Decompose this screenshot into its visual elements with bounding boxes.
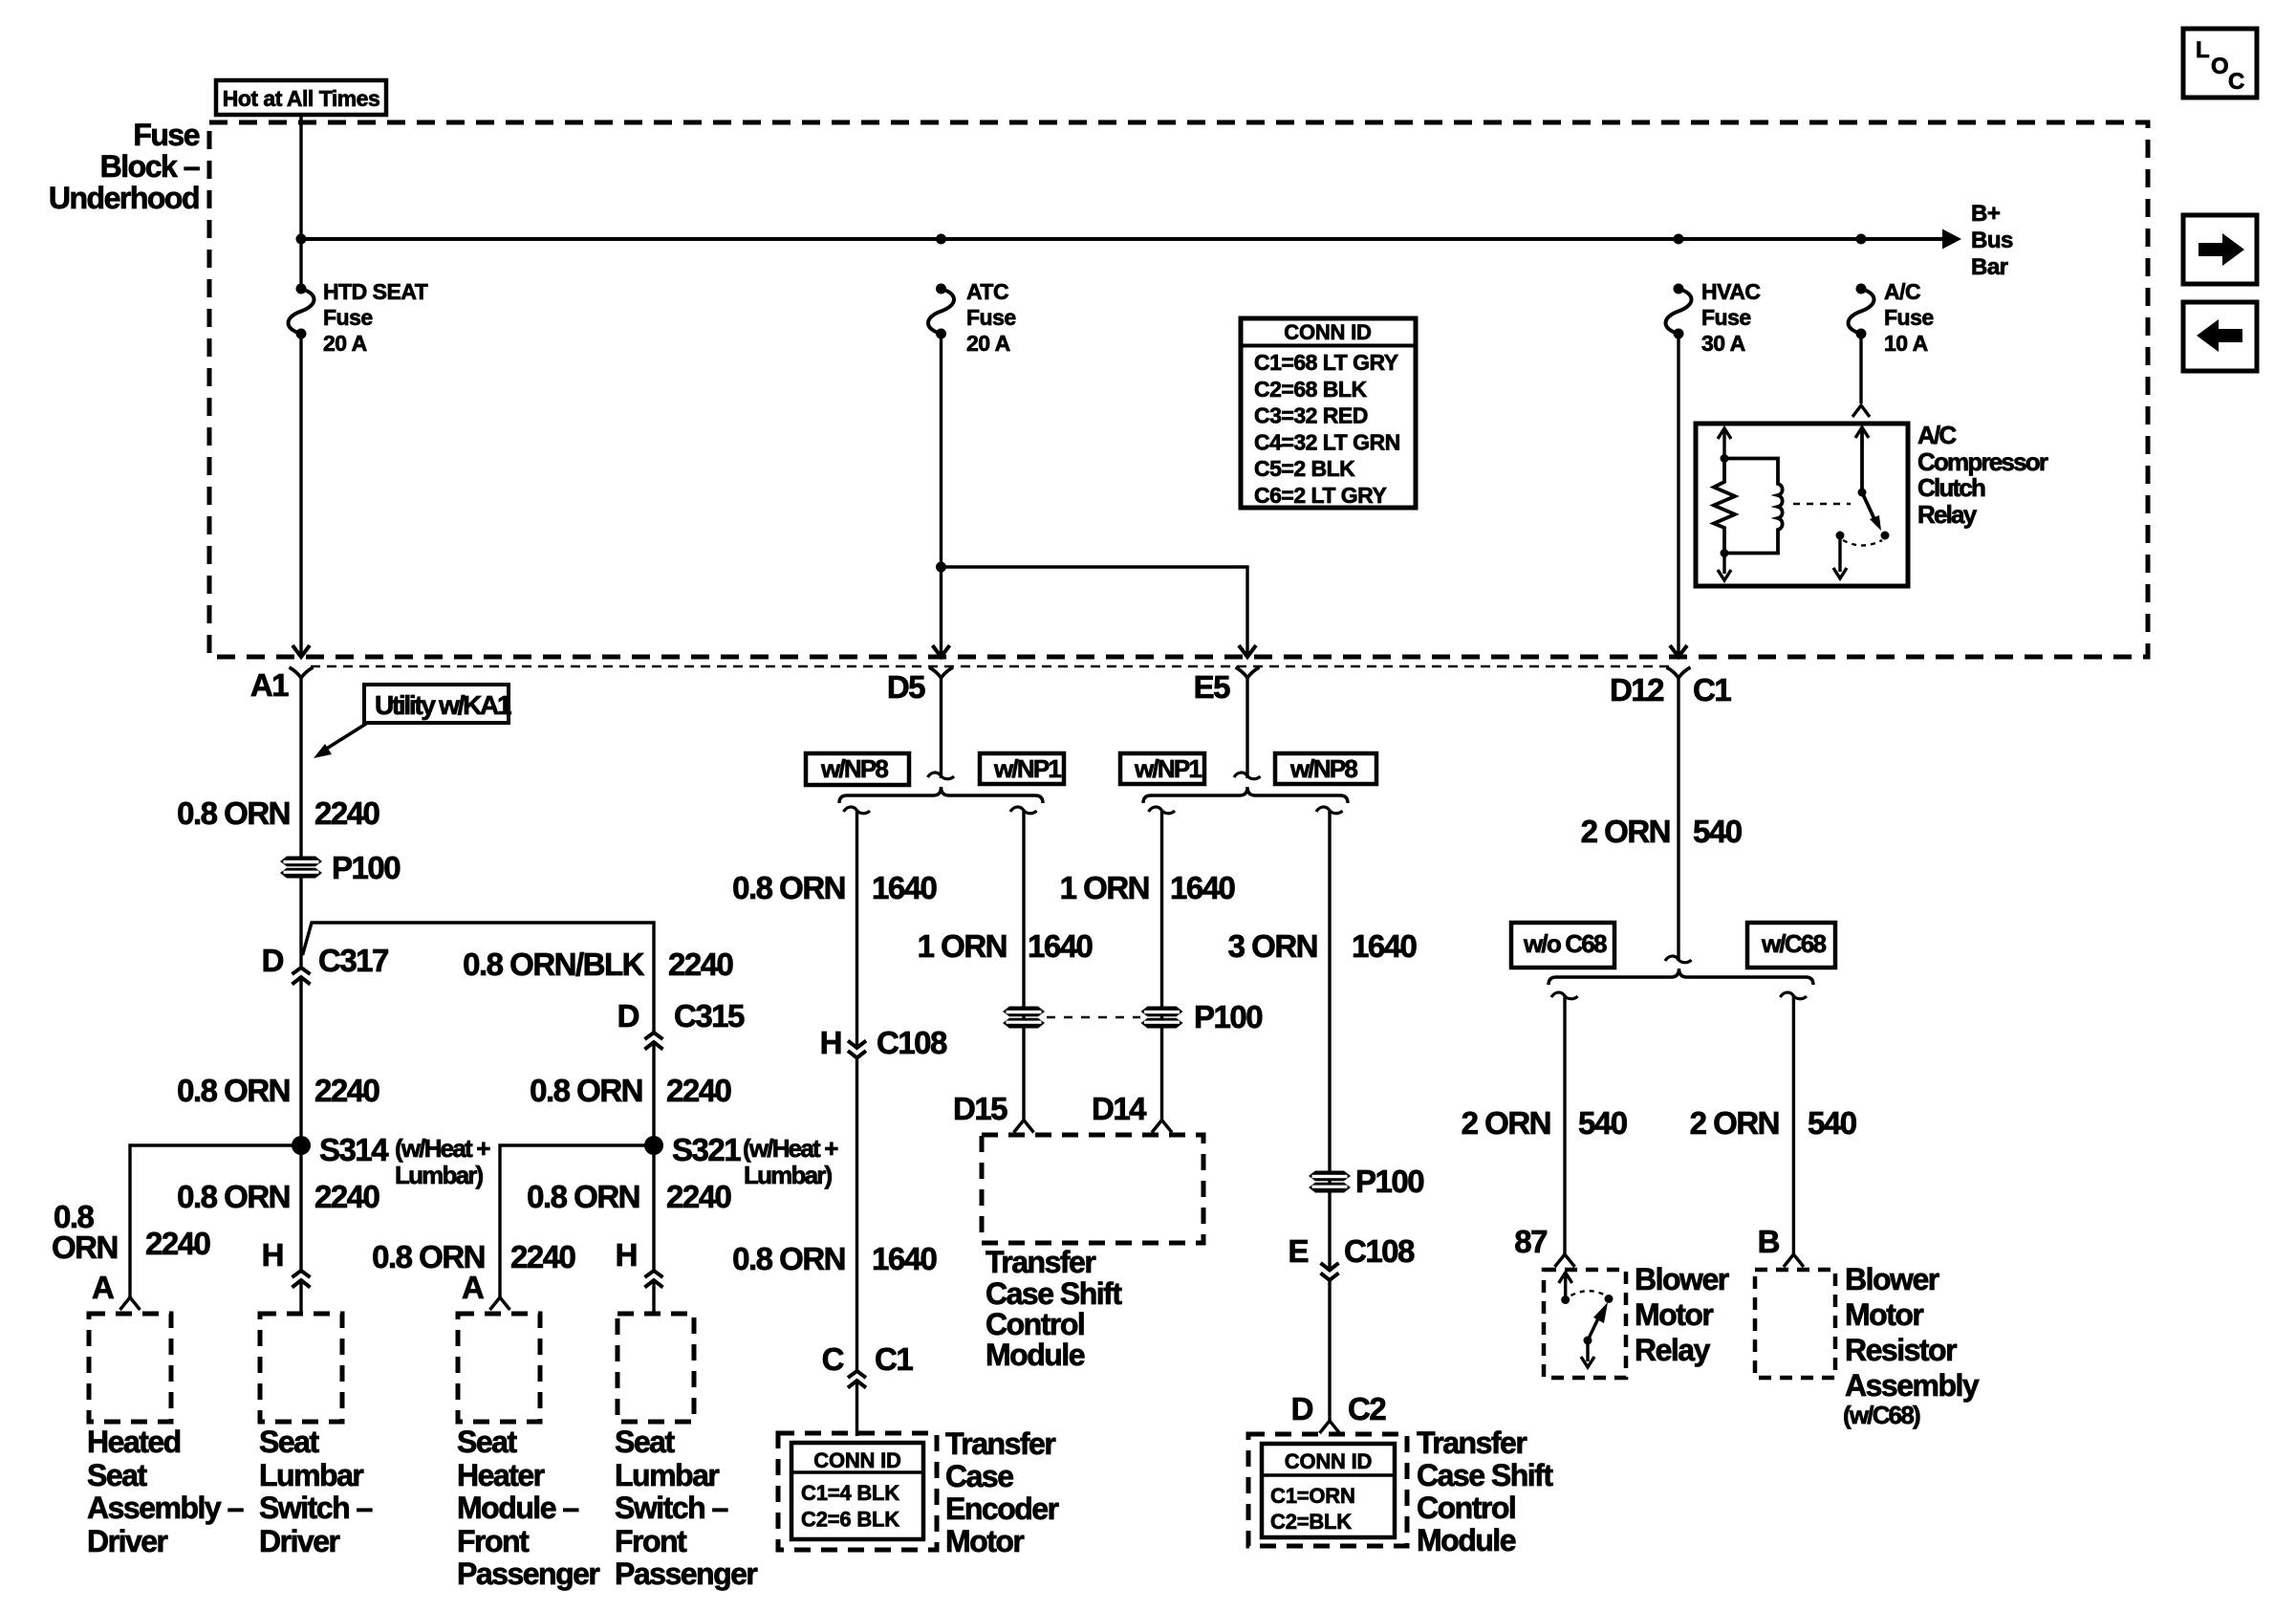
svg-text:Module: Module [986,1338,1085,1372]
svg-text:Blower: Blower [1635,1262,1729,1296]
label: 0.8 ORN / 2240 (A1 to P100) [177,795,290,831]
svg-text:2 ORN: 2 ORN [1581,814,1670,849]
svg-text:D: D [262,943,284,978]
svg-text:C317: C317 [318,943,388,978]
connector on driver lumbar wire [292,1271,311,1288]
svg-text:CONN ID: CONN ID [813,1448,901,1472]
svg-text:2240: 2240 [510,1239,575,1274]
svg-text:H: H [820,1025,841,1060]
label: Transfer Case Shift Control Module (mid) [986,1245,1095,1279]
wire: connector to switch (passenger) [652,1280,655,1314]
branch: S314 to heated seat assembly [130,1145,301,1297]
relay pin arrow (coil +) [1718,428,1731,458]
svg-text:Switch –: Switch – [259,1491,373,1525]
svg-text:P100: P100 [1194,999,1262,1034]
svg-text:Lumbar): Lumbar) [744,1161,833,1189]
label: ATC Fuse 20 A [966,279,1008,304]
svg-text:20 A: 20 A [323,331,367,356]
splice S321 [644,1136,663,1155]
svg-text:Lumbar): Lumbar) [395,1161,484,1189]
label: 0.8 ORN / 2240 (to S314) [177,1073,290,1108]
svg-text:ORN: ORN [52,1230,118,1265]
svg-text:Assembly: Assembly [1845,1368,1980,1403]
forward page arrow box [2183,215,2257,284]
label: S321 (w/Heat + Lumbar) [672,1132,741,1167]
svg-text:1640: 1640 [872,870,937,905]
svg-text:Case Shift: Case Shift [1417,1458,1553,1492]
splice grommet P100 right [1309,1171,1351,1193]
svg-text:Transfer: Transfer [1417,1426,1527,1460]
svg-text:1640: 1640 [1028,928,1093,964]
svg-text:C315: C315 [674,998,745,1034]
relay contact dot (NO) [1881,532,1890,540]
svg-text:540: 540 [1808,1105,1856,1141]
squiggle at E5 split [1234,773,1261,779]
branch: S321 to seat heater module [500,1145,654,1297]
svg-text:540: 540 [1578,1105,1627,1141]
label: Fuse Block - Underhood [133,118,199,152]
label: B+ Bus Bar [1971,201,2001,227]
wire: Hot at All Times feed [299,115,302,289]
backward page arrow box [2183,302,2257,371]
wire: D5 to option split [940,678,942,778]
relay linkage (dashed) [1793,503,1851,505]
wire: C315 to S321 [652,1042,655,1145]
svg-text:Clutch: Clutch [1917,473,1985,502]
branch wire w/NP1 (1 ORN 1640, D5) [1010,807,1037,814]
junction: bus at HTD SEAT feed [296,234,307,245]
svg-text:C1=4 BLK: C1=4 BLK [801,1481,899,1505]
label: 2 ORN / 540 (w/o C68) [1462,1105,1550,1141]
svg-text:Module –: Module – [457,1491,578,1525]
label: H / C108 [820,1025,841,1060]
svg-text:P100: P100 [332,850,400,885]
component: Seat Lumbar Switch - Front Passenger [617,1314,694,1422]
fuse ATC 20 A [928,284,954,339]
CONN ID table: underhood fuse block [1241,318,1416,508]
svg-text:Fuse: Fuse [966,305,1016,330]
svg-text:10 A: 10 A [1884,331,1928,356]
connector pin A (heated seat) [120,1297,141,1310]
svg-text:C1=68 LT GRY: C1=68 LT GRY [1254,350,1398,375]
connector pin E5 [1236,667,1260,678]
svg-text:A1: A1 [250,667,289,703]
svg-text:C: C [822,1341,844,1377]
label: A1 [250,667,289,703]
svg-text:Relay: Relay [1917,500,1978,529]
svg-text:Heated: Heated [87,1425,181,1459]
wire: C317 to S314 [299,977,302,1145]
relay throw dashed arc [1843,540,1882,546]
wire: E5 to option split [1245,678,1248,778]
svg-text:B+: B+ [1971,201,2001,227]
label: 0.8 ORN / 2240 (to S321) [530,1073,642,1108]
label: 0.8 ORN / 1640 (upper) [732,870,845,905]
label: 0.8 ORN / 2240 (below S314) [177,1179,290,1214]
label: 0.8 ORN / 1640 (lower) [732,1241,845,1276]
svg-text:C2=BLK: C2=BLK [1270,1510,1352,1534]
svg-text:C108: C108 [877,1025,947,1060]
svg-text:C2=68 BLK: C2=68 BLK [1254,377,1367,402]
label: E / C108 [1288,1233,1308,1269]
label: Transfer Case Shift Control Module (bottom) [1417,1426,1527,1460]
option split brace C68 [1549,969,1813,985]
svg-text:B: B [1758,1224,1780,1259]
svg-text:2240: 2240 [668,947,733,982]
option label box w/o C68 [1511,923,1614,968]
label: 0.8 ORN 2240 stacked (heated seat wire) [54,1199,95,1234]
arrow at fuse block exit E5 [1239,645,1256,657]
svg-text:CONN ID: CONN ID [1285,1449,1373,1473]
connector pin D5 [929,667,953,678]
wire: HVAC fuse to D12 [1677,334,1679,657]
svg-text:Seat: Seat [87,1458,147,1492]
wire: D12 to option split [1677,678,1679,961]
svg-text:0.8 ORN: 0.8 ORN [732,1241,845,1276]
connector C108 pin H [848,1041,866,1058]
component: Blower Motor Resistor Assembly [1755,1270,1835,1378]
relay blade with arrow [1588,1302,1608,1340]
squiggle at D5 split [928,773,955,779]
component: Seat Lumbar Switch - Driver [260,1314,342,1422]
svg-text:Heater: Heater [457,1458,545,1492]
svg-text:O: O [2211,54,2228,79]
B+ bus bar [301,229,1961,250]
svg-text:Control: Control [986,1307,1084,1341]
junction: ATC branch to E5 [936,562,946,573]
wire: ATC fuse to D5 [940,334,942,657]
callout: Hot at All Times [216,80,386,115]
label: D12 / C1 [1610,672,1664,708]
svg-text:w/NP1: w/NP1 [1134,754,1202,783]
svg-text:2240: 2240 [314,1073,379,1108]
svg-text:Assembly –: Assembly – [87,1491,244,1525]
branch wire to C315 [303,923,655,1033]
svg-text:0.8 ORN: 0.8 ORN [530,1073,642,1108]
relay node B dot [1721,549,1729,557]
svg-text:C108: C108 [1344,1233,1415,1269]
label: 2 ORN / 540 (w/C68) [1690,1105,1779,1141]
label: D15 [953,1091,1007,1126]
svg-text:0.8 ORN: 0.8 ORN [177,1179,290,1214]
connector C108 pin E [1321,1263,1339,1280]
svg-text:C2=6 BLK: C2=6 BLK [801,1508,899,1532]
connector pin A1 [290,667,314,678]
svg-text:Bar: Bar [1971,254,2008,280]
svg-text:H: H [616,1237,637,1273]
svg-text:0.8 ORN: 0.8 ORN [177,1073,290,1108]
svg-text:H: H [262,1237,283,1273]
label: A/C Compressor Clutch Relay [1917,421,1957,449]
svg-text:1640: 1640 [1170,870,1235,905]
relay output pin arrow [1833,535,1847,578]
svg-text:Motor: Motor [945,1524,1024,1558]
wire: A1 to P100 [299,678,302,857]
connector C317 (pin D) [292,968,311,985]
svg-text:C6=2 LT GRY: C6=2 LT GRY [1254,483,1386,508]
branch wire w/NP1 (1 ORN 1640, E5) [1149,807,1176,814]
label: 3 ORN / 1640 [1228,928,1317,964]
component: Transfer Case Shift Control Module (pins D15/D14) [982,1135,1203,1243]
squiggle at C68 split [1665,956,1692,963]
svg-text:C1: C1 [875,1341,913,1377]
svg-text:1640: 1640 [872,1241,937,1276]
svg-text:Lumbar: Lumbar [259,1458,363,1492]
svg-text:Case: Case [945,1459,1013,1493]
svg-text:Lumbar: Lumbar [615,1458,719,1492]
svg-text:Blower: Blower [1845,1262,1939,1296]
arrow at fuse block exit A1 [292,645,310,657]
option label box w/NP8 left [806,753,909,785]
svg-text:Front: Front [615,1524,687,1558]
svg-text:w/o C68: w/o C68 [1523,929,1607,958]
label: HVAC Fuse 30 A [1701,279,1760,304]
svg-text:Transfer: Transfer [986,1245,1095,1279]
svg-text:Motor: Motor [1845,1297,1923,1332]
svg-text:3 ORN: 3 ORN [1228,928,1317,964]
relay contact dot 87 [1561,1295,1570,1304]
svg-text:87: 87 [1514,1224,1547,1259]
label: pin A (seat heater module) [462,1270,484,1305]
svg-text:2 ORN: 2 ORN [1690,1105,1779,1141]
svg-text:Seat: Seat [615,1425,675,1459]
svg-text:Block –: Block – [100,149,200,184]
label: Blower Motor Resistor Assembly (w/C68) [1845,1262,1939,1296]
CONN ID table: transfer case encoder motor [791,1443,923,1539]
label: Blower Motor Relay [1635,1262,1729,1296]
option label box w/NP1 right [1120,753,1204,784]
option split brace E5 [1143,787,1348,803]
connector pin B [1784,1254,1804,1267]
label: D / C2 [1291,1391,1313,1426]
svg-text:D: D [1291,1391,1313,1426]
relay contact dot 87a [1605,1295,1614,1303]
fuse HTD SEAT 20 A [289,284,314,339]
connector C1 pin C [848,1371,866,1388]
option label box w/C68 [1747,923,1835,968]
svg-text:2240: 2240 [666,1179,731,1214]
label: HTD SEAT Fuse 20 A [323,279,428,304]
svg-text:C3=32 RED: C3=32 RED [1254,403,1368,428]
svg-text:Hot at All Times: Hot at All Times [223,86,380,111]
label: A/C Fuse 10 A [1884,279,1920,304]
component: Seat Heater Module - Front Passenger [458,1314,540,1422]
option label box w/NP1 left [980,753,1064,784]
svg-text:Bus: Bus [1971,228,2013,253]
label: pin H (driver lumbar) [262,1237,283,1273]
relay throw dashed arc [1571,1291,1605,1295]
svg-text:2 ORN: 2 ORN [1462,1105,1550,1141]
svg-text:Fuse: Fuse [1701,305,1751,330]
svg-text:Transfer: Transfer [945,1426,1055,1461]
wire: C108 to C1 [856,1058,858,1372]
component: Transfer Case Shift Control Module (CONN ID) [1248,1434,1407,1546]
arrow at fuse block exit D12 [1670,645,1687,657]
label: E5 [1194,669,1231,705]
svg-text:E: E [1288,1233,1308,1269]
branch wire w/NP8 (0.8 ORN 1640) [844,807,871,814]
connector: relay input [1852,405,1870,417]
svg-text:C1: C1 [1693,672,1731,708]
svg-text:Relay: Relay [1635,1333,1711,1367]
connector C315 (pin D) [645,1033,663,1050]
branch wire w/NP8 (3 ORN 1640, E5) [1316,807,1343,814]
resistor (relay suppression) [1714,459,1735,554]
label: 0.8 ORN / 2240 (seat heater module wire) [372,1239,485,1274]
svg-text:D15: D15 [953,1091,1007,1126]
connector pin D12 / C1 [1667,667,1691,678]
svg-text:Underhood: Underhood [49,181,199,215]
svg-text:2240: 2240 [666,1073,731,1108]
fuse block connector boundary (thin dashed) [311,665,1669,668]
component: Blower Motor Relay [1544,1270,1626,1378]
svg-text:2240: 2240 [145,1226,210,1261]
svg-text:A/C: A/C [1884,279,1920,304]
label: Heated Seat Assembly - Driver [87,1425,181,1459]
branch wire: ATC to E5 [942,567,1248,657]
wire: S321 to seat lumbar switch passenger [652,1145,655,1271]
connector C2 pin D [1320,1421,1340,1433]
svg-text:540: 540 [1693,814,1742,849]
connector on passenger lumbar wire [645,1271,663,1288]
wire: S314 to seat lumbar switch driver [299,1145,302,1271]
svg-text:C: C [2228,69,2244,95]
relay U1: A/C Compressor Clutch Relay box [1696,424,1908,586]
label: P100 [332,850,400,885]
arrow at fuse block exit D5 [933,645,950,657]
wire: HTD SEAT fuse to A1 [299,334,302,657]
connector pin A (seat heater module) [490,1297,510,1310]
label: 1 ORN / 1640 (E5 left) [1060,870,1149,905]
label: Seat Lumbar Switch - Driver [259,1425,319,1459]
wire: C108 to C2 [1328,1281,1331,1422]
svg-text:Seat: Seat [457,1425,517,1459]
svg-text:Motor: Motor [1635,1297,1713,1332]
svg-text:S314: S314 [319,1132,389,1167]
svg-text:Fuse: Fuse [133,118,199,152]
svg-text:Passenger: Passenger [457,1557,599,1591]
label: 0.8 ORN / 2240 (below S321) [527,1179,639,1214]
label: D / C315 [617,998,639,1034]
label: pin H (passenger lumbar) [616,1237,637,1273]
svg-text:D5: D5 [887,669,925,705]
svg-text:E5: E5 [1194,669,1231,705]
label: S314 (w/Heat + Lumbar) [319,1132,389,1167]
splice link P100 dashed [1047,1016,1140,1018]
svg-text:C4=32 LT GRN: C4=32 LT GRN [1254,429,1400,454]
label: D5 [887,669,925,705]
fuse A/C 10 A [1849,284,1874,339]
connector pin D15 [1014,1121,1034,1133]
wire: P100 to C317 [299,878,302,968]
svg-text:0.8 ORN: 0.8 ORN [527,1179,639,1214]
svg-text:D14: D14 [1092,1091,1147,1126]
svg-text:Seat: Seat [259,1425,319,1459]
splice S314 [292,1136,311,1155]
svg-text:Module: Module [1417,1523,1516,1557]
svg-text:20 A: 20 A [966,331,1010,356]
svg-text:Resistor: Resistor [1845,1333,1957,1367]
relay pin 87 arrow [1559,1273,1572,1300]
label: D / C317 [262,943,284,978]
svg-text:0.8 ORN/BLK: 0.8 ORN/BLK [463,947,645,982]
label: Seat Lumbar Switch - Front Passenger [615,1425,675,1459]
relay common pin arrow [1581,1340,1594,1367]
junction: bus at HVAC fuse [1674,234,1684,245]
junction: bus at ATC fuse [936,234,946,245]
component: Transfer Case Encoder Motor (CONN ID) [778,1433,937,1550]
relay switch common dot [1858,489,1867,497]
svg-text:Switch –: Switch – [615,1491,728,1525]
wire: A/C fuse to relay [1859,334,1862,403]
relay common dot [1584,1337,1592,1345]
svg-text:D: D [617,998,639,1034]
junction: bus at A/C fuse [1856,234,1867,245]
svg-text:Fuse: Fuse [323,305,373,330]
relay node A dot [1721,454,1729,463]
svg-text:Encoder: Encoder [945,1491,1059,1526]
option split brace D5 [839,787,1043,803]
svg-text:C1=ORN: C1=ORN [1270,1484,1355,1508]
svg-text:1 ORN: 1 ORN [918,928,1007,964]
svg-text:w/NP1: w/NP1 [993,754,1061,783]
svg-text:Passenger: Passenger [615,1557,757,1591]
svg-text:A: A [462,1270,484,1305]
svg-text:P100: P100 [1355,1164,1423,1199]
splice grommet P100 mid-left [1003,1007,1045,1029]
connector pin D14 [1152,1121,1172,1133]
svg-text:Driver: Driver [259,1524,340,1558]
connector pin 87 [1555,1254,1575,1267]
svg-text:0.8 ORN: 0.8 ORN [732,870,845,905]
svg-text:(w/Heat +: (w/Heat + [395,1134,490,1163]
relay contact dot (NC) [1836,532,1845,540]
fuse block underhood dashed boundary [209,122,2148,657]
CONN ID table: transfer case shift control module [1262,1444,1395,1537]
branch wire w/C68 (2 ORN 540) [1780,992,1807,999]
svg-text:0.8 ORN: 0.8 ORN [177,795,290,831]
branch wire w/o C68 (2 ORN 540) [1551,992,1578,999]
callout: Utility w/KA1 [314,685,511,758]
splice grommet P100 mid-right [1141,1007,1183,1029]
splice grommet P100 driver [280,857,322,879]
svg-text:1640: 1640 [1352,928,1417,964]
label: 1 ORN / 1640 (D5 right) [918,928,1007,964]
svg-text:Front: Front [457,1524,530,1558]
label: Seat Heater Module - Front Passenger [457,1425,517,1459]
svg-text:C2: C2 [1348,1391,1386,1426]
svg-text:Utility w/KA1: Utility w/KA1 [375,690,511,720]
label: pin A (heated seat) [92,1270,114,1305]
svg-text:D12: D12 [1610,672,1664,708]
svg-text:1 ORN: 1 ORN [1060,870,1149,905]
page reference LOC box [2183,29,2257,98]
fuse HVAC 30 A [1666,284,1692,339]
svg-text:Case Shift: Case Shift [986,1276,1122,1311]
wire: connector to switch (driver) [299,1280,302,1314]
svg-text:2240: 2240 [314,1179,379,1214]
svg-text:w/NP8: w/NP8 [820,754,888,783]
label: P100 (mid) [1194,999,1262,1034]
svg-text:(w/Heat +: (w/Heat + [743,1134,838,1163]
relay pin arrow (coil -) [1718,554,1731,581]
label: 2 ORN / 540 [1581,814,1670,849]
label: pin 87 [1514,1224,1547,1259]
svg-text:ATC: ATC [966,279,1008,304]
svg-text:L: L [2196,37,2209,63]
svg-text:w/NP8: w/NP8 [1289,754,1357,783]
svg-text:Compressor: Compressor [1917,447,2048,476]
